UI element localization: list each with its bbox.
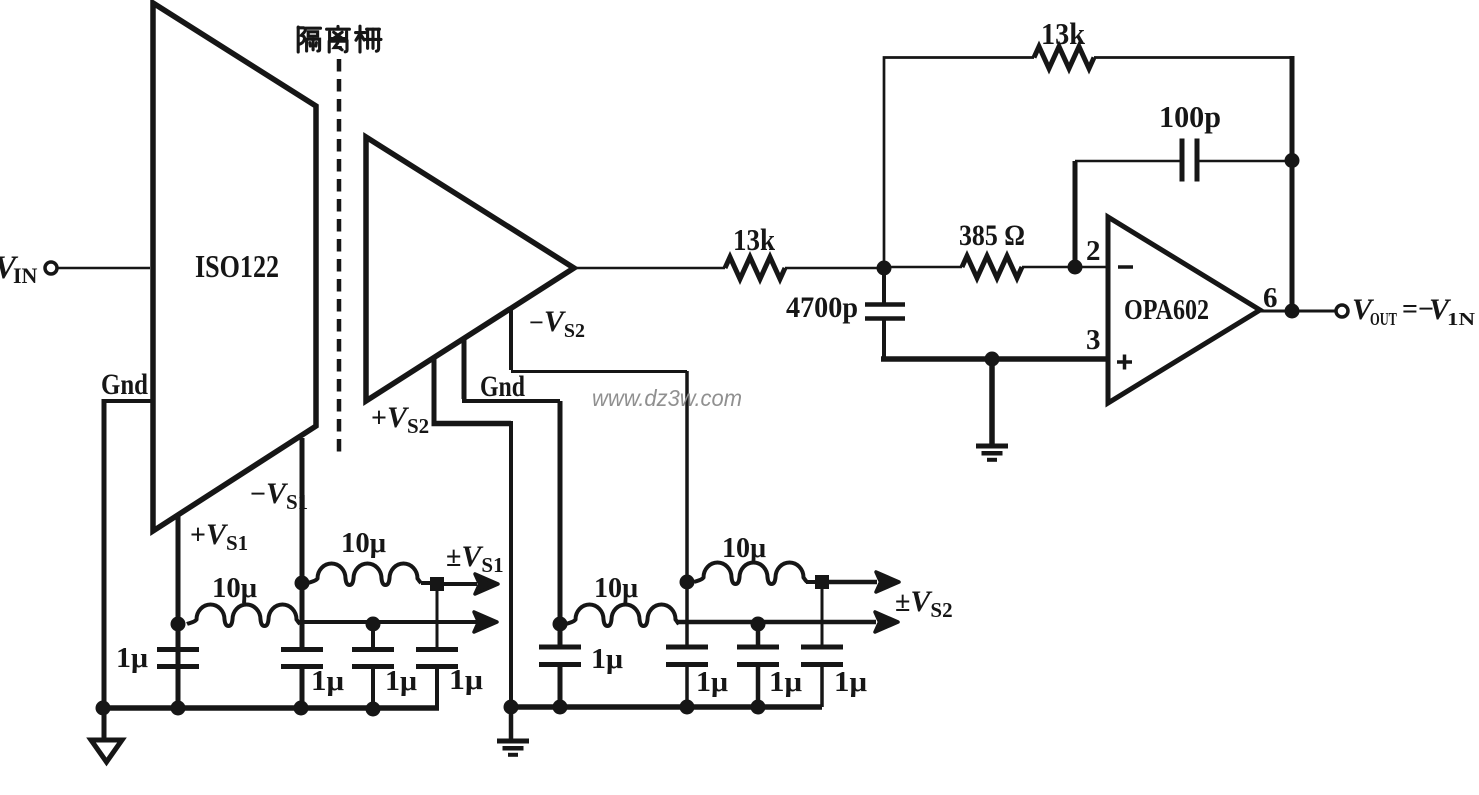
svg-text:www.dz3w.com: www.dz3w.com bbox=[592, 385, 742, 411]
svg-text:1μ: 1μ bbox=[311, 666, 344, 697]
svg-text:13k: 13k bbox=[733, 222, 776, 257]
svg-text:1μ: 1μ bbox=[834, 667, 867, 698]
svg-text:10μ: 10μ bbox=[594, 573, 638, 604]
svg-text:1μ: 1μ bbox=[449, 665, 483, 696]
svg-text:1μ: 1μ bbox=[116, 643, 148, 674]
svg-text:ISO122: ISO122 bbox=[195, 248, 279, 284]
svg-text:13k: 13k bbox=[1041, 16, 1086, 51]
svg-text:Gnd: Gnd bbox=[101, 368, 148, 401]
svg-text:10μ: 10μ bbox=[341, 528, 386, 559]
svg-text:IN: IN bbox=[13, 263, 38, 288]
svg-text:4700p: 4700p bbox=[786, 291, 858, 324]
svg-text:1N: 1N bbox=[1447, 309, 1475, 329]
svg-text:OUT: OUT bbox=[1370, 309, 1397, 329]
svg-text:OPA602: OPA602 bbox=[1124, 295, 1209, 326]
svg-text:3: 3 bbox=[1086, 324, 1101, 356]
svg-text:10μ: 10μ bbox=[212, 573, 257, 604]
svg-text:6: 6 bbox=[1263, 282, 1278, 314]
svg-text:1μ: 1μ bbox=[769, 667, 802, 698]
svg-text:1μ: 1μ bbox=[385, 666, 417, 697]
svg-text:Gnd: Gnd bbox=[480, 370, 525, 403]
svg-text:2: 2 bbox=[1086, 235, 1101, 267]
svg-text:1μ: 1μ bbox=[696, 667, 728, 698]
svg-text:10μ: 10μ bbox=[722, 533, 766, 564]
svg-text:1μ: 1μ bbox=[591, 644, 623, 675]
svg-text:100p: 100p bbox=[1159, 99, 1221, 134]
svg-text:385 Ω: 385 Ω bbox=[959, 219, 1025, 252]
